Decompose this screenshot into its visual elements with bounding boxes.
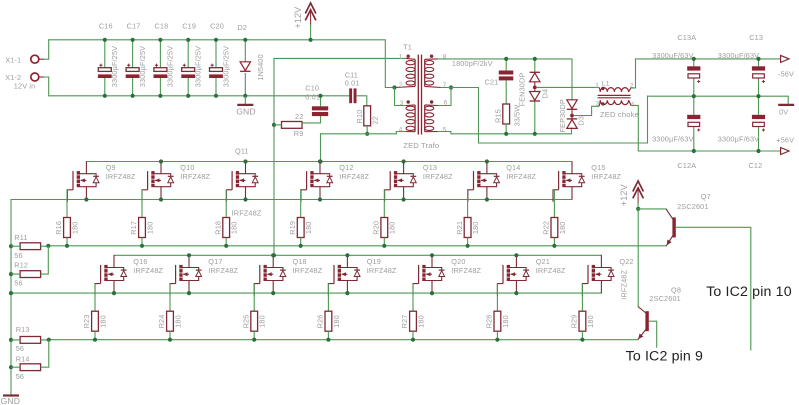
junction Q17 source bbox=[187, 291, 191, 295]
diode D4 bbox=[530, 59, 540, 134]
transistor Q20 symbol bbox=[413, 255, 445, 295]
resistor R12 bbox=[20, 271, 40, 278]
junction Q21 drain bbox=[514, 253, 518, 257]
svg-text:180: 180 bbox=[471, 221, 480, 234]
L1 winding 1-2 bbox=[600, 88, 628, 92]
wire upper drain bus bbox=[86, 161, 572, 163]
svg-text:Q13: Q13 bbox=[423, 163, 437, 172]
svg-text:180: 180 bbox=[70, 221, 79, 234]
svg-text:3: 3 bbox=[400, 100, 404, 107]
svg-text:5: 5 bbox=[443, 126, 447, 133]
svg-text:R10: R10 bbox=[355, 110, 364, 124]
svg-text:R24: R24 bbox=[157, 315, 166, 329]
svg-text:IRFZ48Z: IRFZ48Z bbox=[339, 172, 369, 181]
wire gate Q20 to R27 bbox=[412, 284, 414, 312]
wire C11 to R10 bbox=[357, 96, 367, 106]
svg-text:180: 180 bbox=[258, 315, 267, 328]
svg-text:C12: C12 bbox=[749, 161, 763, 170]
svg-text:IRFZ48Z: IRFZ48Z bbox=[180, 172, 210, 181]
svg-text:X1-1: X1-1 bbox=[5, 55, 21, 64]
svg-text:4: 4 bbox=[399, 126, 403, 133]
junction T1 pins 2-3 bbox=[392, 85, 396, 89]
wire pin4 to upper drain bus bbox=[320, 134, 322, 162]
junction +12V Q7 collector bbox=[636, 207, 640, 211]
svg-text:R15: R15 bbox=[494, 109, 503, 123]
svg-text:3300µF/25V: 3300µF/25V bbox=[138, 46, 147, 87]
svg-text:R28: R28 bbox=[485, 315, 494, 329]
resistor R10 bbox=[364, 106, 371, 126]
supply symbol 0V bbox=[778, 104, 794, 106]
resistor R9 bbox=[282, 122, 303, 129]
svg-text:0.01: 0.01 bbox=[305, 93, 320, 102]
capacitor C19 bbox=[181, 40, 195, 96]
resistor R28 bbox=[494, 311, 501, 331]
wire +56V rail bbox=[638, 150, 780, 152]
wire Q7 base to IC2 pin 10 bbox=[676, 227, 751, 350]
junction R17 gate bus bbox=[140, 244, 144, 248]
wire R18 bottom bbox=[225, 238, 227, 246]
svg-text:IRFZ48Z: IRFZ48Z bbox=[232, 209, 262, 218]
resistor R21 bbox=[464, 218, 471, 238]
capacitor C11 bbox=[349, 88, 356, 103]
capacitor C12A bbox=[687, 115, 700, 132]
junction R19 gate bus bbox=[299, 244, 303, 248]
svg-text:180: 180 bbox=[332, 315, 341, 328]
svg-text:D3: D3 bbox=[577, 116, 586, 126]
svg-text:1800pF/2kV: 1800pF/2kV bbox=[452, 59, 493, 68]
svg-text:C18: C18 bbox=[154, 21, 168, 30]
resistor R19 bbox=[297, 218, 304, 238]
junction Q17 drain bbox=[187, 253, 191, 257]
supply +12V arrow at Q7 bbox=[633, 181, 644, 204]
wire secondary top rail to D3 bbox=[438, 59, 572, 100]
svg-text:3300µF/63V: 3300µF/63V bbox=[652, 134, 693, 143]
junction R15 pin5 line bbox=[504, 132, 508, 136]
supply +12V arrow top bbox=[305, 3, 316, 26]
junction Q10 drain bbox=[159, 159, 163, 163]
wire gate Q12 to R19 bbox=[300, 190, 302, 218]
transistor Q17 symbol bbox=[170, 255, 202, 295]
svg-text:0V: 0V bbox=[779, 107, 788, 116]
svg-text:GND: GND bbox=[1, 396, 21, 405]
junction C18 top bbox=[158, 38, 162, 42]
T1 secondary winding 8-7 bbox=[425, 59, 434, 86]
T1 primary winding 1-2 bbox=[406, 59, 415, 86]
L1 core bbox=[598, 94, 631, 96]
junction Q14 source bbox=[485, 197, 489, 201]
svg-text:R26: R26 bbox=[316, 315, 325, 329]
svg-text:R14: R14 bbox=[16, 354, 30, 363]
svg-text:3300µF/25V: 3300µF/25V bbox=[166, 46, 175, 87]
wire C10 top bbox=[320, 96, 322, 107]
svg-text:IRFZ48Z: IRFZ48Z bbox=[451, 266, 481, 275]
junction R27 gate bus bbox=[411, 338, 415, 342]
capacitor C12 bbox=[752, 115, 765, 132]
wire D4 common anode to L1 pin 1 bbox=[537, 86, 599, 88]
svg-text:IRFZ48Z: IRFZ48Z bbox=[506, 172, 536, 181]
svg-text:-56V: -56V bbox=[778, 69, 794, 78]
wire R19 bottom bbox=[300, 238, 302, 246]
wire T1 pin 4 line bbox=[321, 133, 397, 135]
capacitor C13A bbox=[687, 66, 700, 83]
resistor R29 bbox=[579, 311, 586, 331]
junction Q12 drain bbox=[318, 159, 322, 163]
svg-text:180: 180 bbox=[230, 221, 239, 234]
wire lower gate bus bbox=[49, 339, 638, 341]
svg-text:R21: R21 bbox=[455, 221, 464, 235]
wire lower drain bus bbox=[114, 254, 601, 256]
junction T1 pin 7 bbox=[449, 85, 453, 89]
junction R21 gate bus bbox=[466, 244, 470, 248]
junction R24 gate bus bbox=[168, 338, 172, 342]
diode D2 bbox=[240, 40, 250, 96]
svg-text:ZED Trafo: ZED Trafo bbox=[403, 141, 439, 150]
svg-text:GND: GND bbox=[236, 106, 256, 116]
wire gate Q13 to R20 bbox=[383, 190, 385, 218]
wire X1-1 to +12V bus bbox=[44, 40, 49, 59]
svg-text:C19: C19 bbox=[182, 21, 196, 30]
svg-text:FEP30DP: FEP30DP bbox=[558, 99, 567, 133]
wire gate Q9 to R16 bbox=[66, 190, 68, 218]
wire gate Q10 to R17 bbox=[141, 190, 143, 218]
svg-text:R23: R23 bbox=[82, 315, 91, 329]
junction C10 GND bus bbox=[318, 94, 322, 98]
junction Q14 drain bbox=[485, 159, 489, 163]
wire T1 pin1 to lower drain bus bbox=[273, 58, 275, 255]
wire R13 stubs bbox=[11, 339, 49, 341]
connector X1-1 bbox=[31, 55, 44, 63]
svg-text:C16: C16 bbox=[99, 21, 113, 30]
svg-text:D4: D4 bbox=[541, 89, 550, 99]
wire R24 bottom bbox=[169, 331, 171, 340]
resistor R15 bbox=[503, 104, 510, 124]
transistor Q12 symbol bbox=[301, 162, 333, 202]
svg-text:3300µF/25V: 3300µF/25V bbox=[221, 46, 230, 87]
wire R20 bottom bbox=[383, 238, 385, 246]
ground symbol under D2 bbox=[237, 104, 253, 106]
junction R26 gate bus bbox=[326, 338, 330, 342]
svg-text:0.01: 0.01 bbox=[345, 78, 360, 87]
wire R25 bottom bbox=[253, 331, 255, 340]
L1 leads bbox=[599, 87, 631, 106]
svg-text:C10: C10 bbox=[305, 84, 319, 93]
junction C18 bottom bbox=[158, 94, 162, 98]
transistor Q18 symbol bbox=[254, 255, 286, 295]
junction Q19 source bbox=[345, 291, 349, 295]
wire T1 pin 1 bbox=[274, 57, 406, 59]
svg-text:180: 180 bbox=[416, 315, 425, 328]
svg-text:C13: C13 bbox=[749, 33, 763, 42]
wire C12 column bbox=[758, 96, 760, 115]
wire gate Q18 to R25 bbox=[253, 284, 255, 312]
junction D2 bottom bbox=[243, 94, 247, 98]
junction C13A bottom bbox=[692, 94, 696, 98]
wire C13A column bbox=[693, 59, 695, 66]
wire R29 bottom bbox=[581, 331, 583, 340]
junction C19 bottom bbox=[186, 94, 190, 98]
resistor R17 bbox=[139, 218, 146, 238]
capacitor C20 bbox=[209, 40, 223, 96]
wire R17 bottom bbox=[141, 238, 143, 246]
output arrow +56V bbox=[781, 148, 789, 155]
junction C16 top bbox=[103, 38, 107, 42]
junction R29 gate bus bbox=[580, 338, 584, 342]
capacitor C21 bbox=[499, 59, 514, 104]
junction Q18 source bbox=[271, 291, 275, 295]
transistor Q19 symbol bbox=[328, 255, 360, 295]
wire GND bus bbox=[49, 95, 350, 97]
junction R20 gate bus bbox=[382, 244, 386, 248]
junction C20 bottom bbox=[214, 94, 218, 98]
ground symbol bottom left bbox=[3, 394, 19, 396]
svg-text:3300µF/25V: 3300µF/25V bbox=[110, 46, 119, 87]
svg-text:C12A: C12A bbox=[677, 161, 696, 170]
resistor R27 bbox=[410, 311, 417, 331]
junction R13 left rail bbox=[9, 338, 13, 342]
svg-text:56: 56 bbox=[16, 372, 24, 381]
svg-text:180: 180 bbox=[304, 221, 313, 234]
inductor L1 bbox=[598, 87, 631, 107]
wire +12V bus to T1 pins 2-3 bbox=[49, 40, 395, 88]
svg-text:D2: D2 bbox=[238, 23, 248, 32]
svg-text:Q15: Q15 bbox=[591, 163, 605, 172]
wire pins 2-3 tie bbox=[395, 88, 407, 106]
svg-text:3300µF/63V: 3300µF/63V bbox=[652, 51, 693, 60]
junction Q19 drain bbox=[345, 253, 349, 257]
wire upper gate bus bbox=[48, 245, 666, 247]
resistor R22 bbox=[551, 218, 558, 238]
junction R14 left rail bbox=[9, 365, 13, 369]
resistor R24 bbox=[167, 311, 174, 331]
junction C12 bottom bbox=[756, 149, 760, 153]
svg-text:Q11: Q11 bbox=[235, 147, 249, 156]
wire T1 pin 5 line to D3 bbox=[438, 128, 572, 134]
junction Q10 source bbox=[159, 197, 163, 201]
wire Q7 emitter to upper gate bus bbox=[665, 245, 667, 247]
svg-text:R25: R25 bbox=[241, 315, 250, 329]
svg-text:Q14: Q14 bbox=[506, 163, 520, 172]
L1 winding 3-4 bbox=[600, 100, 628, 104]
svg-text:FEN30DP: FEN30DP bbox=[517, 73, 526, 107]
svg-text:2SC2601: 2SC2601 bbox=[649, 294, 680, 303]
svg-text:56: 56 bbox=[16, 344, 24, 353]
L1 polarity dots bbox=[601, 87, 604, 90]
wire R28 bottom bbox=[496, 331, 498, 340]
wire pin 6 tie bbox=[438, 88, 451, 106]
svg-text:C13A: C13A bbox=[677, 33, 696, 42]
wire L1 pin 4 to +56V rail bbox=[631, 105, 638, 151]
junction R10 pin4 line bbox=[365, 132, 369, 136]
wire gate Q21 to R28 bbox=[496, 284, 498, 312]
junction C16 bottom bbox=[103, 94, 107, 98]
svg-text:180: 180 bbox=[501, 315, 510, 328]
wire pin4 jog bbox=[396, 132, 406, 134]
wire C13 column bbox=[758, 59, 760, 66]
junction C17 bottom bbox=[131, 94, 135, 98]
junction pin4 feed upper drain bus bbox=[318, 159, 322, 163]
svg-text:R27: R27 bbox=[400, 315, 409, 329]
junction D4 top rail bbox=[533, 57, 537, 61]
svg-text:1: 1 bbox=[399, 53, 403, 60]
wire left ground rail bbox=[10, 200, 12, 396]
wire L1 pin 2 to -56V rail bbox=[631, 59, 781, 88]
wire +12V to Q8 collector bbox=[637, 209, 639, 307]
wire R21 bottom bbox=[467, 238, 469, 246]
junction Q12 source bbox=[318, 197, 322, 201]
junction Q16 source bbox=[112, 291, 116, 295]
svg-text:Q17: Q17 bbox=[208, 257, 222, 266]
T1 polarity dots bbox=[407, 55, 410, 58]
svg-text:R13: R13 bbox=[16, 325, 30, 334]
junction C19 top bbox=[186, 38, 190, 42]
transistor Q22 symbol bbox=[582, 255, 614, 295]
svg-text:+12V: +12V bbox=[293, 7, 303, 29]
svg-text:IRFZ48Z: IRFZ48Z bbox=[619, 269, 628, 299]
svg-text:12V in: 12V in bbox=[14, 82, 36, 91]
wire gate Q16 to R23 bbox=[94, 284, 96, 312]
svg-text:22: 22 bbox=[370, 116, 379, 124]
T1 winding leads bbox=[395, 58, 416, 131]
transistor Q7 symbol bbox=[666, 209, 676, 246]
svg-text:IRFZ48Z: IRFZ48Z bbox=[367, 266, 397, 275]
resistor R23 bbox=[92, 311, 99, 331]
svg-text:IRFZ48Z: IRFZ48Z bbox=[208, 266, 238, 275]
T1 core bbox=[417, 55, 419, 135]
svg-text:R9: R9 bbox=[294, 129, 304, 138]
capacitor C17 bbox=[126, 40, 140, 96]
junction Q20 source bbox=[430, 291, 434, 295]
capacitor C13 bbox=[752, 66, 765, 83]
svg-text:Q22: Q22 bbox=[619, 257, 633, 266]
wire R10 bottom bbox=[366, 126, 368, 134]
svg-text:C17: C17 bbox=[127, 21, 141, 30]
svg-text:3: 3 bbox=[596, 101, 600, 108]
svg-text:R19: R19 bbox=[288, 221, 297, 235]
wire R22 bottom bbox=[553, 238, 555, 246]
wire C12A column bbox=[693, 96, 695, 115]
junction R12 left rail bbox=[9, 272, 13, 276]
transistor Q15 symbol bbox=[553, 162, 585, 202]
resistor R20 bbox=[381, 218, 388, 238]
wire +12V arrow to bus bbox=[310, 24, 312, 40]
resistor R25 bbox=[251, 311, 258, 331]
svg-text:3300µF/63V: 3300µF/63V bbox=[718, 134, 759, 143]
svg-text:To IC2 pin 9: To IC2 pin 9 bbox=[626, 349, 704, 365]
svg-text:22: 22 bbox=[295, 112, 303, 121]
junction R18 gate bus bbox=[224, 244, 228, 248]
junction C21 top rail bbox=[504, 57, 508, 61]
svg-text:R20: R20 bbox=[372, 221, 381, 235]
junction R28 gate bus bbox=[495, 338, 499, 342]
junction R9 left bbox=[272, 123, 276, 127]
svg-text:180: 180 bbox=[558, 221, 567, 234]
svg-text:3300µF/63V: 3300µF/63V bbox=[718, 51, 759, 60]
svg-text:Q12: Q12 bbox=[339, 163, 353, 172]
svg-text:180: 180 bbox=[173, 315, 182, 328]
transistor Q16 symbol bbox=[95, 255, 127, 295]
wire R12 to gate bus bbox=[11, 246, 48, 274]
junction Q20 drain bbox=[430, 253, 434, 257]
junction lower source bus left rail bbox=[9, 291, 13, 295]
junction R23 gate bus bbox=[93, 338, 97, 342]
wire gate Q15 to R22 bbox=[553, 190, 554, 218]
svg-text:IRFZ48Z: IRFZ48Z bbox=[423, 172, 453, 181]
svg-text:C21: C21 bbox=[485, 78, 499, 87]
svg-text:Q19: Q19 bbox=[367, 257, 381, 266]
junction D4 pin5 line bbox=[533, 132, 537, 136]
wire Q8 base to IC2 pin 9 bbox=[649, 321, 657, 348]
svg-text:56: 56 bbox=[14, 251, 22, 260]
svg-text:180: 180 bbox=[98, 315, 107, 328]
junction Q13 source bbox=[402, 197, 406, 201]
svg-text:+56V: +56V bbox=[776, 136, 794, 145]
wire X1-2 to GND bus bbox=[44, 77, 49, 96]
capacitor C16 bbox=[98, 40, 112, 96]
svg-text:R17: R17 bbox=[129, 221, 138, 235]
svg-text:IRFZ48Z: IRFZ48Z bbox=[133, 266, 163, 275]
wire lower source bus bbox=[11, 292, 601, 294]
junction C17 top bbox=[131, 38, 135, 42]
wire R9 left stub bbox=[274, 124, 282, 126]
svg-text:7: 7 bbox=[443, 82, 447, 89]
junction Q11 source bbox=[243, 197, 247, 201]
svg-text:C20: C20 bbox=[210, 21, 224, 30]
junction C13A top bbox=[692, 57, 696, 61]
resistor R11 bbox=[20, 243, 40, 250]
junction C13 top bbox=[756, 57, 760, 61]
svg-text:Q7: Q7 bbox=[701, 192, 711, 201]
svg-text:3300µF/25V: 3300µF/25V bbox=[194, 46, 203, 87]
svg-text:L1: L1 bbox=[602, 81, 610, 88]
svg-text:R11: R11 bbox=[14, 233, 27, 242]
transistor Q9 symbol bbox=[67, 162, 99, 202]
junction R11 gate bus bbox=[46, 244, 50, 248]
wire upper source bus bbox=[11, 199, 572, 201]
svg-text:2SC2601: 2SC2601 bbox=[677, 202, 708, 211]
svg-text:T1: T1 bbox=[403, 43, 412, 52]
junction Q21 source bbox=[514, 291, 518, 295]
transformer T1 bbox=[395, 55, 442, 135]
junction +12V arrow bbox=[309, 38, 313, 42]
output arrow -56V bbox=[781, 55, 789, 62]
svg-text:180: 180 bbox=[145, 221, 154, 234]
wire gate Q19 to R26 bbox=[327, 284, 329, 312]
wire R23 bottom bbox=[94, 331, 96, 340]
wire Q7 collector bbox=[638, 208, 666, 210]
svg-text:Q10: Q10 bbox=[180, 163, 194, 172]
transistor Q10 symbol bbox=[142, 162, 174, 202]
svg-text:180: 180 bbox=[388, 221, 397, 234]
resistor R13 bbox=[20, 337, 40, 344]
capacitor C10 bbox=[312, 106, 328, 116]
T1 secondary winding 6-5 bbox=[425, 105, 434, 132]
svg-text:Q18: Q18 bbox=[293, 257, 307, 266]
wire D2 to GND symbol bbox=[244, 96, 246, 105]
svg-text:R16: R16 bbox=[54, 221, 63, 235]
wire R26 bottom bbox=[327, 331, 329, 340]
wire R9 to C10 bbox=[302, 116, 321, 123]
transistor Q21 symbol bbox=[497, 255, 529, 295]
svg-text:2: 2 bbox=[399, 82, 403, 89]
wire gate Q17 to R24 bbox=[169, 284, 171, 312]
wire R27 bottom bbox=[412, 331, 414, 340]
junction C12A bottom bbox=[692, 149, 696, 153]
connector X1-2 bbox=[31, 73, 44, 81]
diode D3 bbox=[567, 100, 577, 129]
junction C13 bottom bbox=[756, 94, 760, 98]
resistor R18 bbox=[223, 218, 230, 238]
svg-text:To IC2 pin 10: To IC2 pin 10 bbox=[706, 284, 792, 300]
